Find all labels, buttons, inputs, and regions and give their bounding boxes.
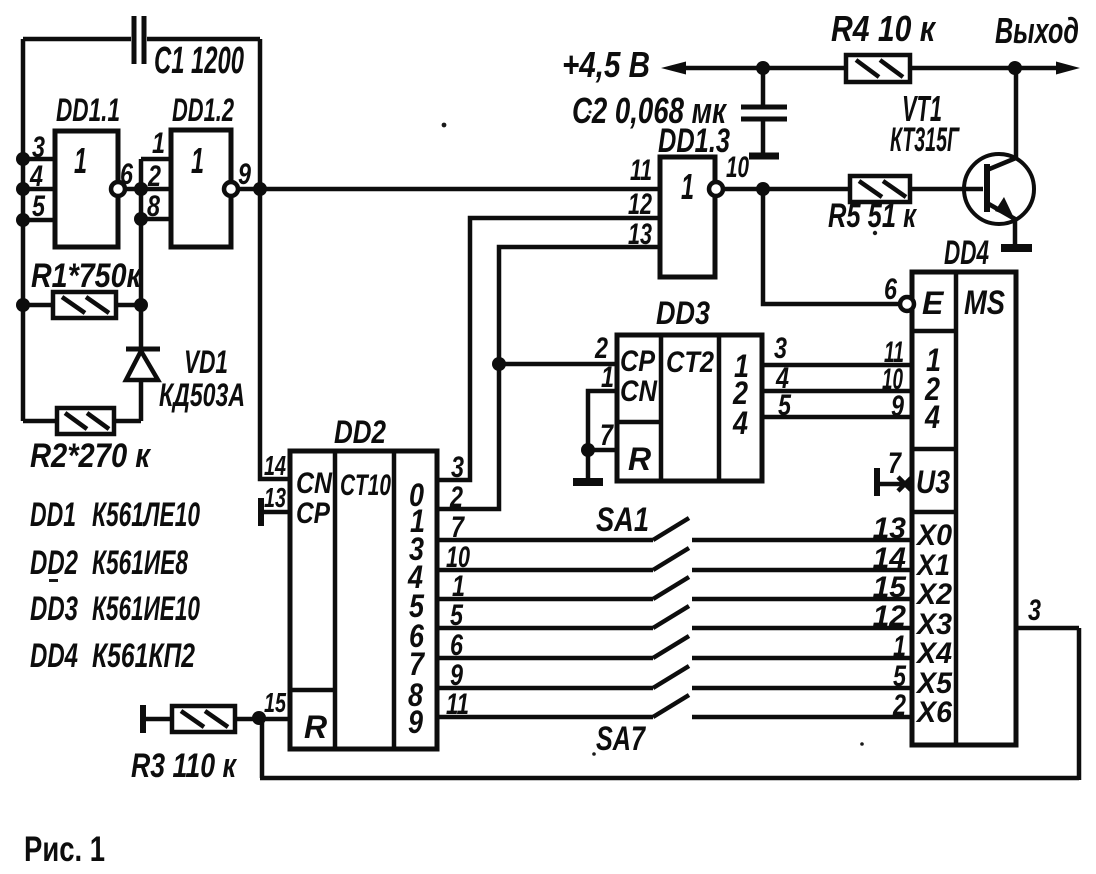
wire C2 link [761,68,766,153]
resistor R3 body [172,706,235,732]
wire right rail from top to DD2 pin14 [260,39,290,479]
gate DD1.1 output bubble pin6 [111,182,125,196]
scan speckle [442,123,447,128]
scan speckle [860,742,864,746]
wire R1 row [23,303,141,308]
svg-text:R5 51 к: R5 51 к [828,197,917,235]
gate DD1.2 output bubble pin9 [224,182,238,196]
resistor R2 body [57,408,114,434]
wire row SA7 right [692,715,912,720]
svg-text:CN: CN [620,375,658,408]
wire row SA2 left [437,568,653,573]
resistor R2 hatch [65,413,109,429]
svg-text:12: 12 [873,600,907,633]
node dot DD1.2 pin2 [134,182,148,196]
wire diode to R2 row [139,380,144,421]
svg-text:4: 4 [29,160,43,193]
bubble DD4 E input pin6 [900,297,914,311]
svg-text:X0: X0 [915,519,952,552]
switch SA5 blade [653,636,689,658]
svg-text:DD3: DD3 [656,295,710,331]
op-amp U1 gate DD1.1 box [55,131,118,247]
transistor VT1 collector [987,68,1016,170]
svg-text:1: 1 [191,140,204,181]
wire bottom feedback rail [260,628,1079,780]
resistor R3 hatch [181,711,228,727]
wire row SA6 left [437,686,653,691]
ground bar DD3 [573,478,603,486]
svg-text:SA7: SA7 [596,720,647,758]
svg-text:1: 1 [74,140,87,181]
wire DD3 out1 to DD4 pin11 [762,363,912,368]
wire DD1.2 pin8 stub [141,217,171,222]
svg-text:+4,5 В: +4,5 В [562,44,650,85]
svg-text:R4 10 к: R4 10 к [831,8,936,49]
svg-text:11: 11 [630,154,652,187]
svg-text:1: 1 [893,630,906,663]
switch SA2 blade [653,548,689,570]
svg-text:3: 3 [1028,594,1041,627]
svg-text:6: 6 [120,158,133,191]
resistor R4 body [846,55,910,82]
svg-text:X4: X4 [915,637,952,670]
resistor R5 hatch [859,181,906,197]
wire DD2 out1 pin2 to DD1.3 pin13 [437,247,660,509]
ground bar VT1 emitter [1001,244,1032,252]
wire row SA5 right [692,656,912,661]
wire row SA2 right [692,568,912,573]
svg-text:7: 7 [888,447,902,480]
switch SA4 blade [653,606,689,628]
node dot DD1.2 out [253,182,267,196]
gate DD1.2 box [171,130,231,247]
cross mark at U3 input [898,477,912,491]
svg-text:R: R [628,441,651,477]
svg-text:К561ИЕ8: К561ИЕ8 [92,544,188,582]
svg-text:13: 13 [628,218,652,251]
wire DD1.2 input rail [139,159,144,305]
terminal tick R3 [140,705,146,733]
svg-text:2: 2 [449,481,463,514]
svg-text:Выход: Выход [995,10,1079,51]
wire DD1.2 pin2 stub [141,187,171,192]
arrow output right [1056,62,1080,75]
svg-text:X2: X2 [915,578,952,611]
wire row SA5 left [437,656,653,661]
svg-text:VD1: VD1 [184,344,228,380]
switch SA3 blade [653,577,689,599]
wire node to DD4 E input [763,189,902,304]
svg-text:MS: MS [964,284,1005,322]
svg-text:15: 15 [264,687,286,718]
svg-text:CT2: CT2 [666,346,714,379]
wire DD2 out0 pin3 to DD1.3 pin12 [437,218,660,480]
wire DD1.3 output to node [723,187,850,192]
terminal tick DD2 pin13 [258,498,264,526]
wire DD1.1 pin3 stub [23,157,55,162]
svg-text:1: 1 [681,166,694,207]
wire DD1.1 pin4 stub [23,187,55,192]
wire row SA1 right [692,538,912,543]
svg-text:КТ315Г: КТ315Г [890,121,960,159]
wire top rail right of C1 [147,37,260,42]
svg-text:DD1.1: DD1.1 [56,92,120,128]
wire row SA6 right [692,686,912,691]
svg-text:13: 13 [873,512,907,545]
wire R2 row [23,419,141,424]
svg-text:DD3: DD3 [30,590,78,628]
node dot R1 right [134,298,148,312]
resistor R1 body [53,292,116,318]
svg-text:5: 5 [778,389,792,422]
svg-text:C1 1200: C1 1200 [154,40,244,82]
wire DD1.1 output to DD1.2 rail [125,187,141,192]
wire row SA1 left [437,538,653,543]
wire DD3 CN loop [588,391,617,479]
node dot DD1.1 pin3 [16,152,30,166]
wire top rail left of C1 [23,37,131,42]
wire row SA4 right [692,626,912,631]
node dot DD1.1 pin4 [16,182,30,196]
svg-text:7: 7 [600,419,614,452]
svg-text:14: 14 [264,450,286,481]
wire junction to diode [139,305,144,347]
svg-text:4: 4 [924,399,940,435]
svg-text:6: 6 [450,629,463,662]
wire DD1.2 output to right rail [238,187,260,192]
counter DD3 box [617,335,762,481]
multiplexer DD4 box [912,272,1016,745]
wire DD2 pin13 stub [261,510,290,515]
transistor VT1 emitter [987,203,1015,245]
capacitor C2 plates [741,107,787,119]
svg-text:CP: CP [620,345,656,378]
svg-text:К561КП2: К561КП2 [92,637,195,675]
scan speckle [589,111,592,114]
diode VD1 cathode bar [126,347,160,352]
svg-text:Рис. 1: Рис. 1 [24,830,105,869]
wire left rail [21,39,26,421]
svg-text:DD1: DD1 [30,496,76,534]
wire long horizontal to DD1.3 pin11 [260,187,660,192]
svg-text:3: 3 [451,451,464,484]
svg-text:DD4: DD4 [944,234,989,272]
scan speckle [592,752,596,756]
transistor VT1 circle [964,154,1034,224]
wire DD1.1 pin5 stub [23,218,55,223]
wire DD3 out2 to DD4 pin10 [762,389,912,394]
counter DD2 inner dividers [290,451,394,749]
svg-text:13: 13 [264,482,286,513]
svg-text:11: 11 [446,688,469,721]
scan speckle [49,579,58,582]
wire row SA7 left [437,715,653,720]
capacitor C1 [134,16,144,64]
svg-text:5: 5 [32,190,46,223]
wire R3 row [145,717,290,722]
node dot +4.5V C2 [756,61,770,75]
switch SA6 blade [653,666,689,688]
svg-text:U3: U3 [916,464,950,500]
svg-text:3: 3 [774,332,787,365]
svg-text:R: R [304,709,327,745]
wire DD4 pin7 stub [880,482,912,487]
wire row SA3 left [437,597,653,602]
gate DD1.3 output bubble pin10 [709,182,723,196]
svg-text:CT10: CT10 [340,469,391,502]
node dot DD1.3 out [756,182,770,196]
arrow +4.5V left [661,62,686,75]
counter DD3 inner dividers [617,335,719,481]
svg-text:К561ЛЕ10: К561ЛЕ10 [92,496,200,534]
gate DD1.3 box [660,157,715,277]
svg-text:SA1: SA1 [596,501,649,539]
svg-text:1: 1 [601,361,614,394]
switch SA7 blade [653,695,689,717]
svg-text:2: 2 [892,689,906,722]
multiplexer DD4 inner dividers [912,272,956,745]
svg-text:DD4: DD4 [30,637,78,675]
arrow VT1 emitter [995,197,1014,218]
svg-text:4: 4 [732,405,748,441]
wire row SA4 left [437,626,653,631]
svg-text:9: 9 [408,704,423,740]
node dot DD3 CN R [581,443,595,457]
svg-text:10: 10 [726,151,749,184]
svg-text:R3 110 к: R3 110 к [131,747,237,785]
resistor R1 hatch [62,297,109,313]
diode VD1 triangle [126,351,158,380]
node dot output collector [1008,61,1022,75]
svg-text:CN: CN [296,467,333,500]
node dot R3 pin15 [252,711,266,725]
svg-text:1: 1 [152,127,165,160]
scan speckle [873,231,877,235]
node dot DD1.1 pin5 [16,213,30,227]
counter DD2 box [290,451,437,749]
svg-text:CP: CP [296,497,331,530]
svg-text:6: 6 [884,273,897,306]
svg-text:DD2: DD2 [30,544,78,582]
svg-text:E: E [922,285,945,321]
node dot R1 left [16,298,30,312]
node dot DD1.2 pin8 [134,212,148,226]
svg-text:8: 8 [147,190,160,223]
wire R5 to VT1 base [910,187,983,192]
resistor R4 hatch [856,60,903,77]
wire DD1.2 pin1 stub [141,157,171,162]
switch SA1 blade [653,518,689,540]
resistor R5 body [850,176,910,202]
svg-text:9: 9 [891,390,904,423]
wire DD3 out4 to DD4 pin9 [762,415,912,420]
svg-text:КД503А: КД503А [159,377,245,413]
svg-text:R1*750к: R1*750к [31,257,142,295]
wire +4.5V rail [680,66,1062,71]
wire tap to DD3 CP [499,362,617,367]
terminal tick DD4 pin7 [874,468,880,496]
svg-text:R2*270 к: R2*270 к [30,437,152,475]
ground bar C2 [749,153,779,160]
node dot DD3 CP tap [492,357,506,371]
svg-text:2: 2 [147,160,161,193]
svg-text:9: 9 [238,158,251,191]
svg-text:12: 12 [628,188,652,221]
transistor VT1 base bar [984,164,990,212]
svg-text:DD1.2: DD1.2 [172,92,234,128]
wire row SA3 right [692,597,912,602]
svg-text:7: 7 [451,511,465,544]
svg-text:DD2: DD2 [334,414,386,450]
svg-text:C2 0,068 мк: C2 0,068 мк [572,90,727,131]
svg-text:К561ИЕ10: К561ИЕ10 [92,590,200,628]
svg-text:5: 5 [450,599,464,632]
svg-text:X6: X6 [915,696,952,729]
